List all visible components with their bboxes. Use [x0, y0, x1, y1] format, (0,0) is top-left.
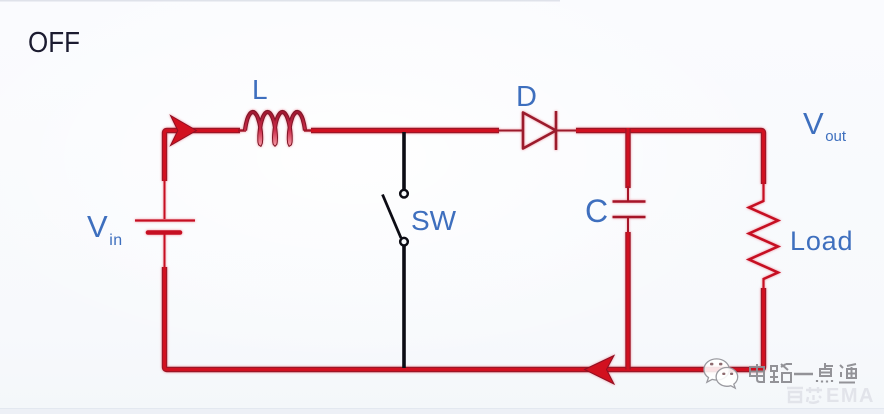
- wire: capacitor branch bottom: [625, 232, 630, 370]
- switch SW bottom terminal: [400, 238, 408, 246]
- current arrow top (right-pointing): [171, 116, 197, 146]
- svg-text:EMA: EMA: [826, 385, 875, 407]
- watermark text 电路一点通 (drawn glyphs): [750, 363, 856, 383]
- wire: capacitor top thin lead: [627, 186, 629, 201]
- glyph 芯: [806, 387, 822, 403]
- watermark wechat logo big bubble: [704, 359, 738, 388]
- diode D triangle: [523, 113, 556, 149]
- switch SW top black lead: [402, 132, 406, 190]
- wire: capacitor branch top: [625, 128, 630, 188]
- watermark text 百芯 (drawn glyphs): [787, 387, 822, 403]
- svg-text:D: D: [516, 81, 537, 113]
- svg-text:Vin: Vin: [87, 209, 123, 249]
- wire: left vertical bottom + bottom horizontal + right vertical bottom: [165, 267, 764, 370]
- glyph 点: [820, 363, 833, 376]
- glyph 路: [770, 366, 779, 382]
- resistor Load zigzag: [749, 201, 778, 279]
- wire: inductor to diode: [311, 128, 499, 133]
- wire: diode anode thin lead: [498, 130, 524, 132]
- battery V1 short plate: [148, 230, 180, 235]
- wire: capacitor bottom thin lead: [627, 217, 629, 234]
- watermark wechat logo small bubble: [716, 367, 738, 388]
- wire: battery bottom thin lead: [164, 234, 166, 269]
- switch SW bottom black lead: [402, 246, 406, 369]
- wire: load top thin lead: [762, 182, 764, 202]
- svg-text:Load: Load: [790, 226, 853, 256]
- watermark wechat eyes: [710, 363, 733, 375]
- capacitor C top plate: [613, 200, 646, 203]
- switch SW top terminal: [400, 190, 408, 198]
- glyph 电: [757, 364, 764, 382]
- wire: diode cathode thin lead: [556, 130, 577, 132]
- inductor L coil core: [245, 112, 305, 144]
- wire: left vertical + top-left horizontal (Vin+ to inductor): [165, 131, 241, 182]
- wire: inductor right thin lead: [304, 129, 312, 131]
- svg-text:L: L: [252, 74, 268, 105]
- svg-text:Vout: Vout: [803, 106, 847, 145]
- glyph 通: [839, 365, 855, 383]
- wire: inductor left thin lead: [238, 129, 246, 131]
- current arrow bottom (left-pointing): [585, 356, 615, 385]
- svg-text:C: C: [585, 193, 608, 229]
- svg-text:OFF: OFF: [28, 27, 80, 59]
- wire: battery top thin lead: [164, 179, 166, 219]
- wire: diode to Vout corner + right vertical top: [576, 131, 764, 185]
- inductor L coil outline: [245, 112, 305, 144]
- switch SW blade (open): [383, 195, 402, 239]
- glyph 百: [787, 388, 803, 402]
- svg-text:SW: SW: [411, 205, 457, 236]
- diode D cathode bar: [555, 111, 558, 150]
- glyph 一: [794, 373, 813, 375]
- capacitor C bottom plate: [613, 216, 646, 219]
- wire: load bottom thin lead: [762, 278, 764, 290]
- battery V1 long plate: [135, 219, 195, 221]
